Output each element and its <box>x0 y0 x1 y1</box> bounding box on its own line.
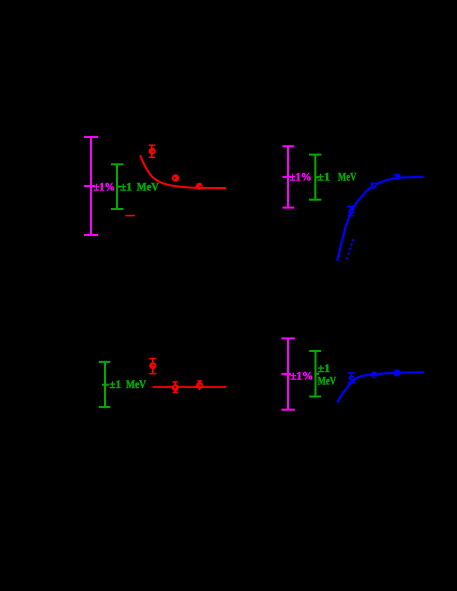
svg-text:MeV: MeV <box>338 169 357 183</box>
magenta systematic error bar (±1%) bottom-right <box>281 338 295 409</box>
blue dashed curve segment top-right <box>346 239 353 261</box>
svg-text:MeV: MeV <box>137 180 159 194</box>
blue data point 1 top-right with error bar <box>348 206 355 215</box>
red data point 1 bottom-left with error bar <box>149 359 156 374</box>
blue fit curve bottom-right <box>337 372 424 402</box>
svg-text:±1%: ±1% <box>290 169 312 183</box>
green systematic error bar (±1 MeV) top-left <box>111 164 124 209</box>
svg-text:±1%: ±1% <box>290 369 313 383</box>
blue data point 3 top-right (open square) <box>394 174 400 180</box>
magenta systematic error bar (±1%) top-left <box>84 137 98 235</box>
svg-text:MeV: MeV <box>126 377 146 391</box>
red fit line bottom-left <box>153 386 227 388</box>
green systematic error bar (±1 MeV) top-right <box>309 155 321 200</box>
red data point 2 top-left <box>172 174 179 181</box>
red data point 3 top-left <box>196 183 203 190</box>
svg-text:±1%: ±1% <box>94 180 116 194</box>
red data point 3 bottom-left with error bar <box>196 381 203 390</box>
blue solid fit curve top-right <box>337 177 423 261</box>
red data point 2 bottom-left with error bar <box>172 382 179 392</box>
red fit curve top-left <box>140 155 226 188</box>
blue data point 2 top-right (open square) <box>371 183 377 189</box>
red data point 1 top-left with error bar <box>149 145 156 157</box>
svg-text:±1: ±1 <box>110 377 122 391</box>
green systematic error bar (±1 MeV) bottom-right <box>309 351 321 397</box>
blue data point 1 bottom-right with error bar <box>348 373 355 383</box>
svg-text:MeV: MeV <box>318 373 337 387</box>
magenta systematic error bar (±1%) top-right <box>283 146 295 207</box>
blue data point 3 bottom-right (filled circle) <box>393 369 400 376</box>
red short dash marker top-left <box>125 215 135 217</box>
svg-text:±1: ±1 <box>317 169 330 183</box>
green systematic error bar (±1 MeV) bottom-left <box>99 362 111 407</box>
svg-text:±1: ±1 <box>120 180 132 194</box>
blue data point 2 bottom-right (open circle) <box>371 371 378 378</box>
